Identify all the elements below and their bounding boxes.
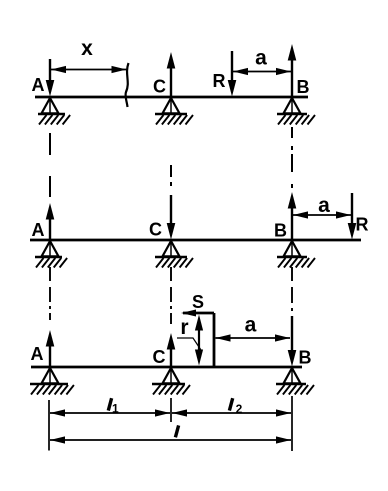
svg-text:A: A [31, 344, 44, 364]
dimension r (vertical double arrow) [195, 315, 203, 366]
dimension x (A to cut line) [51, 66, 127, 73]
extension line at A [48, 400, 50, 451]
support B (bottom) [276, 368, 314, 395]
extension line at C [170, 398, 172, 422]
centerline B (between beams 2-3) [291, 267, 293, 311]
dimension a (B to R, middle) [293, 211, 351, 218]
svg-text:2: 2 [236, 402, 243, 416]
extension line at B [291, 396, 293, 451]
label A (top beam) [32, 75, 45, 95]
label l [175, 425, 178, 437]
support A (top) [38, 98, 70, 125]
reaction arrow up at C (bottom beam) [167, 333, 176, 367]
centerline B (between beams 1-2) [291, 127, 293, 188]
beam 3 (bottom beam) [31, 366, 302, 369]
svg-text:x: x [81, 37, 93, 60]
force arrow down at C (middle beam) [167, 195, 176, 240]
support B (top) [277, 98, 315, 125]
support C (middle) [155, 241, 193, 268]
label A (bottom beam) [31, 344, 44, 364]
label S [192, 292, 204, 312]
support C (bottom) [152, 368, 190, 395]
support A (bottom) [30, 368, 74, 395]
reaction arrow up at A (bottom beam) [46, 330, 55, 367]
reaction arrow up at B (top beam) [288, 44, 297, 97]
reaction arrow up at C (top beam) [167, 52, 176, 97]
force R arrow down (middle beam overhang) [348, 193, 357, 240]
label r [180, 316, 188, 339]
svg-text:a: a [318, 194, 330, 217]
svg-text:B: B [297, 77, 310, 97]
force arrow down at A (top beam) [46, 59, 55, 97]
centerline A (between beams 1-2) [49, 133, 51, 197]
label B (top beam) [297, 77, 310, 97]
svg-text:a: a [245, 314, 257, 337]
support B (middle) [277, 241, 315, 268]
reaction arrow up at B (middle beam) [288, 192, 297, 240]
support C (top) [155, 98, 193, 125]
label C (middle beam) [149, 220, 162, 240]
label R (top beam) [213, 71, 226, 91]
dimension l (A to B) [50, 436, 291, 443]
centerline C (between beams 1-2) [170, 165, 172, 186]
label l2 [229, 398, 242, 416]
svg-text:R: R [213, 71, 226, 91]
svg-text:S: S [192, 292, 204, 312]
dimension a (R to B, top) [233, 68, 291, 75]
dimension a (bracket to B, bottom) [216, 334, 291, 341]
label x [81, 37, 93, 60]
break (wavy cut) line [126, 63, 129, 107]
support A (middle) [35, 241, 67, 268]
svg-text:a: a [255, 47, 267, 70]
svg-text:C: C [153, 77, 166, 97]
svg-text:B: B [299, 348, 312, 368]
label l1 [108, 398, 119, 415]
label a (middle) [318, 194, 330, 217]
leader line for r [177, 338, 201, 350]
label R (middle beam) [356, 215, 369, 235]
svg-text:A: A [32, 220, 45, 240]
dimension l1 (A to C) [50, 409, 170, 416]
beam 2 (middle beam) [30, 239, 361, 242]
label A (middle beam) [32, 220, 45, 240]
svg-text:R: R [356, 215, 369, 235]
label C (bottom beam) [153, 347, 166, 367]
label B (middle beam) [274, 221, 287, 241]
label a (bottom) [245, 314, 257, 337]
force arrow down at B (bottom beam) [288, 316, 297, 367]
dimension l2 (C to B) [172, 409, 291, 416]
svg-text:B: B [274, 221, 287, 241]
centerline A (between beams 2-3) [49, 267, 51, 320]
force R arrow down (top beam) [228, 51, 237, 97]
label C (top beam) [153, 77, 166, 97]
centerline C (between beams 2-3) [170, 267, 172, 324]
label B (bottom beam) [299, 348, 312, 368]
svg-text:r: r [180, 316, 188, 339]
svg-text:1: 1 [112, 401, 119, 415]
label a (top) [255, 47, 267, 70]
svg-text:C: C [149, 220, 162, 240]
reaction arrow up at A (middle beam) [46, 203, 55, 240]
force S bracket (horizontal arm + vertical arm) [181, 310, 214, 368]
svg-text:A: A [32, 75, 45, 95]
svg-text:C: C [153, 347, 166, 367]
beam 1 (top beam A-C-B) [35, 96, 308, 99]
